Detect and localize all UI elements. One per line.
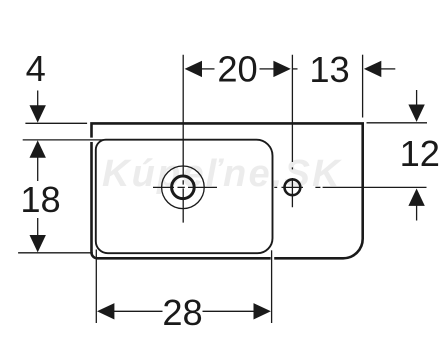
dimension 20 arrow right	[273, 61, 290, 77]
basin inner rim	[96, 140, 273, 254]
svg-text:20: 20	[217, 48, 257, 89]
dimension 28 arrow right	[254, 303, 271, 319]
centerline horizontal holes	[153, 186, 427, 188]
extension line inner bottom left	[18, 252, 93, 254]
basin outer outline	[91, 123, 362, 258]
dimension 12 arrow up	[408, 189, 424, 206]
svg-text:Kúpeľne.SK: Kúpeľne.SK	[102, 153, 342, 195]
svg-text:12: 12	[400, 133, 440, 174]
dimension 18 arrow down	[30, 235, 46, 252]
centerline vertical tap hole	[291, 55, 293, 208]
dimension 4 arrow down	[30, 105, 46, 122]
svg-text:18: 18	[20, 179, 60, 220]
dimension 28 arrow left	[97, 303, 114, 319]
extension line right basin edge	[362, 55, 364, 118]
extension line outer top left	[25, 122, 87, 124]
extension line 28 right	[271, 250, 273, 323]
faucet hole U1 outer circle	[162, 166, 205, 209]
svg-text:13: 13	[309, 49, 349, 90]
dimension 18 arrow up	[30, 140, 46, 157]
dimension 12 arrow down	[408, 105, 424, 122]
dimension 13 line nub	[292, 68, 297, 70]
dimension 13 arrow outside	[364, 61, 381, 77]
extension line 28 left	[95, 250, 97, 324]
svg-text:28: 28	[162, 292, 202, 333]
dimension 20 arrow left	[185, 61, 202, 77]
tap hole right circle	[285, 179, 301, 195]
extension line top right y122.8	[367, 122, 428, 124]
faucet hole U1 inner circle	[172, 176, 195, 199]
extension line inner top left	[23, 139, 106, 141]
centerline vertical faucet	[182, 55, 184, 223]
svg-text:4: 4	[26, 48, 46, 89]
